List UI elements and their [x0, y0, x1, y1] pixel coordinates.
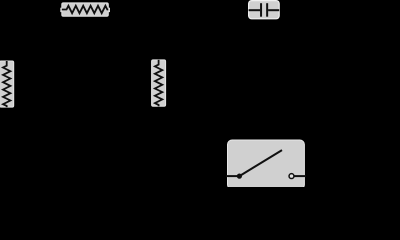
wire [294, 175, 306, 177]
switch lever [239, 150, 282, 176]
resistor R3 [152, 60, 166, 106]
node A (closed terminal) [237, 174, 242, 179]
switch SW1 [226, 140, 306, 189]
resistor R1 [60, 3, 110, 16]
capacitor C1 [249, 1, 280, 19]
node B (open terminal) [289, 174, 294, 179]
resistor R2 [0, 61, 14, 107]
wire [226, 175, 238, 177]
